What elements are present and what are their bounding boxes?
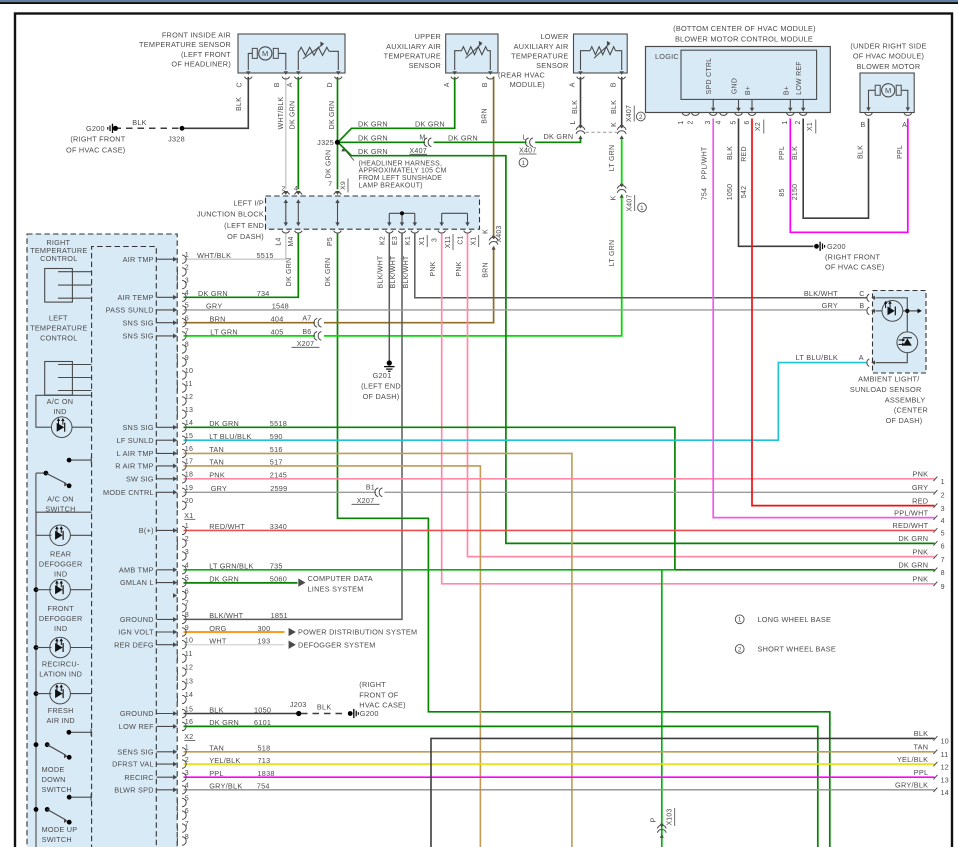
wire DK GRN 5518 X1-14 — [184, 427, 675, 570]
svg-text:15: 15 — [185, 705, 193, 713]
pin X3-8 — [176, 838, 178, 844]
svg-text:5: 5 — [185, 794, 189, 802]
svg-text:2: 2 — [639, 114, 643, 121]
svg-text:LOW REF: LOW REF — [119, 722, 154, 731]
svg-text:300: 300 — [258, 624, 271, 633]
svg-text:DEFOGGER: DEFOGGER — [39, 560, 83, 569]
svg-text:518: 518 — [258, 744, 271, 753]
svg-text:SUNLOAD SENSOR: SUNLOAD SENSOR — [850, 385, 922, 394]
svg-text:(LEFT END: (LEFT END — [361, 382, 401, 391]
svg-text:GROUND: GROUND — [120, 709, 154, 718]
svg-text:A: A — [287, 82, 294, 87]
wire BLK 1050 module GND to G200 — [739, 119, 814, 247]
svg-text:IND: IND — [54, 570, 67, 579]
svg-text:LT GRN: LT GRN — [609, 145, 616, 172]
svg-text:GRY: GRY — [822, 301, 838, 310]
svg-text:5518: 5518 — [270, 419, 287, 428]
svg-text:1838: 1838 — [258, 769, 275, 778]
svg-text:12: 12 — [185, 664, 193, 672]
svg-text:14: 14 — [941, 789, 949, 797]
svg-text:8: 8 — [185, 341, 189, 349]
svg-text:16: 16 — [185, 718, 193, 726]
wire DK GRN upper sensor A to J325 — [339, 77, 455, 141]
svg-text:G200: G200 — [360, 709, 379, 718]
thermistor R upper aux sensor — [462, 47, 488, 55]
svg-text:WHT/BLK: WHT/BLK — [278, 96, 285, 129]
svg-text:1: 1 — [185, 744, 189, 752]
pin X1-9 — [176, 359, 178, 365]
svg-text:SHORT WHEEL BASE: SHORT WHEEL BASE — [758, 645, 836, 654]
svg-text:C: C — [237, 82, 244, 87]
upper auxiliary air temperature sensor box — [446, 34, 498, 73]
svg-text:DK GRN: DK GRN — [329, 101, 336, 130]
svg-text:5060: 5060 — [270, 574, 287, 583]
circled 1 marker X407 — [638, 203, 647, 212]
pin X3-7 — [176, 825, 178, 831]
svg-text:4: 4 — [716, 120, 723, 124]
svg-text:RECIRC: RECIRC — [124, 773, 153, 782]
wire BRN 404 to X1-6 — [184, 322, 316, 324]
connector X407 2 cavity L — [576, 127, 585, 130]
circled 1 long wheel base marker — [519, 158, 528, 167]
sensor pin cavities — [246, 71, 250, 75]
blower motor M — [875, 85, 901, 95]
svg-text:PNK: PNK — [913, 547, 929, 556]
wire PPL 1838 X3-3 to right row 13 — [184, 776, 935, 778]
svg-text:BLK: BLK — [572, 100, 579, 114]
wire PNK X11-C1 to right row 7 — [468, 233, 935, 556]
svg-text:LT GRN: LT GRN — [609, 240, 616, 267]
wire BLK 1050 X2-15 to J203 — [184, 713, 299, 715]
svg-text:PNK: PNK — [913, 470, 929, 479]
svg-text:DEFOGGER: DEFOGGER — [39, 614, 83, 623]
pin X1-12 — [176, 398, 178, 404]
svg-text:516: 516 — [270, 445, 283, 454]
svg-text:SNS SIG: SNS SIG — [122, 423, 153, 432]
pin X2-12 — [176, 669, 178, 675]
mode up switch contact stub — [67, 795, 72, 800]
svg-text:REAR: REAR — [50, 550, 71, 559]
pin X2-14 — [176, 696, 178, 702]
ambient pin cavities C B A — [867, 294, 869, 302]
svg-text:TEMPERATURE: TEMPERATURE — [384, 51, 441, 60]
connector X407 1 cavity K on LT GRN — [617, 185, 626, 188]
power distribution system arrow — [289, 628, 296, 636]
svg-text:1: 1 — [185, 251, 189, 259]
svg-text:5: 5 — [185, 574, 189, 582]
svg-text:85: 85 — [779, 188, 786, 196]
svg-text:DK GRN: DK GRN — [415, 119, 445, 128]
svg-text:OF HEADLINER): OF HEADLINER) — [171, 59, 231, 68]
svg-text:3: 3 — [941, 505, 945, 513]
svg-text:404: 404 — [271, 315, 284, 324]
svg-text:X403: X403 — [496, 225, 503, 242]
svg-text:OF HVAC MODULE): OF HVAC MODULE) — [853, 52, 924, 61]
svg-text:2: 2 — [185, 264, 189, 272]
svg-text:D: D — [327, 82, 334, 87]
svg-text:OF HVAC CASE): OF HVAC CASE) — [825, 263, 884, 272]
svg-text:(RIGHT FRONT: (RIGHT FRONT — [70, 134, 125, 143]
svg-text:B: B — [859, 302, 864, 310]
svg-text:10: 10 — [185, 637, 193, 645]
svg-text:GRY: GRY — [912, 483, 928, 492]
svg-text:DK GRN: DK GRN — [198, 289, 228, 298]
svg-text:2: 2 — [185, 535, 189, 543]
svg-text:GROUND: GROUND — [120, 615, 154, 624]
svg-text:10: 10 — [941, 738, 949, 746]
svg-text:SENSOR: SENSOR — [409, 61, 441, 70]
svg-text:TAN: TAN — [913, 743, 928, 752]
svg-text:X2: X2 — [184, 733, 193, 741]
svg-text:BRN: BRN — [482, 108, 489, 124]
svg-text:BLK: BLK — [792, 146, 799, 160]
svg-text:C: C — [859, 290, 864, 298]
svg-text:8: 8 — [941, 569, 945, 577]
svg-text:1851: 1851 — [271, 611, 288, 620]
svg-text:590: 590 — [270, 432, 283, 441]
svg-text:MODE CNTRL: MODE CNTRL — [103, 488, 154, 497]
svg-text:M: M — [262, 49, 269, 58]
wire GRY/BLK 754 X3-4 to right row 14 — [184, 789, 935, 791]
svg-text:MODE UP: MODE UP — [42, 825, 78, 834]
svg-text:BLOWER MOTOR CONTROL MODULE: BLOWER MOTOR CONTROL MODULE — [675, 34, 813, 43]
svg-text:M4: M4 — [288, 236, 295, 246]
svg-text:SWITCH: SWITCH — [45, 504, 75, 513]
svg-text:A/C ON: A/C ON — [47, 397, 74, 406]
svg-text:B: B — [611, 82, 618, 87]
svg-text:12: 12 — [185, 393, 193, 401]
svg-text:A: A — [902, 121, 907, 129]
svg-text:(UNDER RIGHT SIDE: (UNDER RIGHT SIDE — [850, 41, 926, 50]
wire BRN 404 upper sensor B — [324, 77, 494, 323]
svg-text:1: 1 — [522, 160, 526, 167]
svg-text:2599: 2599 — [270, 484, 287, 493]
node J325 — [335, 140, 340, 145]
svg-text:M: M — [885, 86, 892, 95]
svg-text:1548: 1548 — [272, 302, 289, 311]
svg-text:FRESH: FRESH — [48, 706, 74, 715]
connector X407 break L — [525, 138, 528, 147]
svg-text:9: 9 — [941, 583, 945, 591]
svg-text:ASSEMBLY: ASSEMBLY — [885, 395, 926, 404]
svg-text:M: M — [419, 134, 425, 142]
svg-text:BLK/WHT: BLK/WHT — [390, 255, 397, 288]
pin X2-2 — [176, 540, 178, 546]
svg-text:B: B — [274, 82, 281, 87]
svg-text:R AIR TMP: R AIR TMP — [115, 462, 154, 471]
J325 callout arrow — [345, 150, 355, 161]
svg-text:A7: A7 — [302, 315, 311, 323]
svg-text:B+: B+ — [745, 86, 752, 95]
svg-text:K: K — [611, 122, 618, 127]
svg-text:2: 2 — [687, 120, 694, 124]
svg-text:(CENTER: (CENTER — [894, 406, 928, 415]
wire DK GRN 734 P5 run — [338, 233, 830, 847]
svg-text:2145: 2145 — [270, 471, 287, 480]
svg-text:13: 13 — [941, 776, 949, 784]
svg-text:CONTROL: CONTROL — [40, 333, 77, 342]
svg-text:PPL/WHT: PPL/WHT — [894, 508, 928, 517]
svg-text:G200: G200 — [86, 124, 105, 133]
svg-text:APPROXIMATELY 105 CM: APPROXIMATELY 105 CM — [359, 168, 447, 175]
svg-text:PPL: PPL — [209, 769, 224, 778]
svg-text:(LEFT END: (LEFT END — [224, 221, 264, 230]
svg-text:DK GRN: DK GRN — [898, 534, 928, 543]
svg-text:BLK: BLK — [914, 729, 929, 738]
svg-text:LT GRN/BLK: LT GRN/BLK — [209, 562, 253, 571]
svg-text:DK GRN: DK GRN — [209, 419, 239, 428]
front defogger indicator LED — [34, 587, 39, 592]
svg-text:X407: X407 — [409, 147, 427, 155]
blower motor control module box — [646, 47, 831, 113]
A/C on switch contact stub — [67, 458, 72, 463]
svg-text:TAN: TAN — [209, 458, 224, 467]
svg-text:G201: G201 — [373, 371, 392, 380]
svg-text:12: 12 — [941, 763, 949, 771]
svg-text:517: 517 — [270, 458, 283, 467]
svg-text:B: B — [482, 82, 489, 87]
svg-text:4: 4 — [185, 782, 189, 790]
svg-text:L: L — [523, 134, 527, 142]
fresh air indicator LED — [34, 691, 39, 696]
wire DK GRN J325 to right row 6 — [339, 143, 935, 543]
ground G200 bottom — [348, 711, 353, 716]
svg-text:7: 7 — [941, 556, 945, 564]
svg-text:OF HVAC CASE): OF HVAC CASE) — [66, 145, 125, 154]
svg-text:K: K — [483, 229, 490, 234]
svg-text:LEFT I/P: LEFT I/P — [233, 198, 264, 207]
svg-text:BLK: BLK — [611, 100, 618, 114]
svg-text:FRONT: FRONT — [48, 604, 75, 613]
svg-text:YEL/BLK: YEL/BLK — [897, 755, 928, 764]
svg-text:6101: 6101 — [254, 718, 271, 727]
svg-text:B1: B1 — [366, 484, 375, 492]
svg-text:BLK: BLK — [858, 145, 865, 159]
motor M front inside air temp sensor — [252, 48, 278, 58]
svg-text:E3: E3 — [392, 236, 399, 245]
svg-text:X1: X1 — [184, 512, 193, 520]
svg-text:A: A — [569, 82, 576, 87]
svg-text:WHT: WHT — [209, 637, 227, 646]
junction block top cavities — [282, 192, 290, 194]
svg-text:COMPUTER DATA: COMPUTER DATA — [308, 574, 373, 583]
svg-text:BLOWER MOTOR: BLOWER MOTOR — [857, 62, 921, 71]
wire PNK X1-3 to right row 9 — [442, 233, 935, 583]
svg-text:DK GRN: DK GRN — [209, 718, 239, 727]
svg-text:LT BLU/BLK: LT BLU/BLK — [209, 432, 251, 441]
svg-text:DK GRN: DK GRN — [286, 258, 293, 287]
svg-text:RED/WHT: RED/WHT — [892, 521, 928, 530]
svg-text:FROM LEFT SUNSHADE: FROM LEFT SUNSHADE — [359, 175, 443, 182]
svg-text:DK GRN: DK GRN — [326, 150, 333, 179]
wire TAN 516 X1-16 — [184, 453, 572, 847]
svg-text:1050: 1050 — [727, 184, 734, 201]
blower motor box — [860, 73, 914, 113]
svg-text:B: B — [861, 121, 866, 129]
svg-text:754: 754 — [701, 188, 708, 200]
svg-text:P: P — [650, 817, 657, 822]
defogger system arrow — [289, 641, 296, 649]
svg-text:19: 19 — [185, 484, 193, 492]
svg-text:3: 3 — [185, 276, 189, 284]
svg-text:5: 5 — [731, 120, 738, 124]
svg-text:11: 11 — [185, 650, 193, 658]
svg-text:LF SUNLD: LF SUNLD — [117, 436, 154, 445]
svg-text:20: 20 — [185, 497, 193, 505]
svg-text:17: 17 — [185, 458, 193, 466]
svg-text:10: 10 — [185, 367, 193, 375]
svg-text:11: 11 — [941, 751, 949, 759]
svg-text:LEFT: LEFT — [49, 313, 68, 322]
svg-text:11: 11 — [185, 380, 193, 388]
svg-text:WHT/BLK: WHT/BLK — [197, 251, 231, 260]
connector X403 K on BRN — [489, 237, 498, 240]
svg-text:DK GRN: DK GRN — [325, 258, 332, 287]
svg-text:3340: 3340 — [270, 522, 287, 531]
wire BLK lower sensor B — [621, 77, 623, 128]
wire RED 542 to right row 3 — [752, 119, 935, 506]
svg-text:3: 3 — [432, 238, 439, 242]
wire PPL/WHT 754 to right row 4 — [713, 119, 934, 518]
svg-text:SNS SIG: SNS SIG — [122, 332, 153, 341]
junction block bottom cavities — [282, 231, 290, 233]
svg-text:(BOTTOM CENTER OF HVAC MODULE): (BOTTOM CENTER OF HVAC MODULE) — [673, 24, 816, 33]
svg-text:RED: RED — [741, 146, 748, 162]
svg-text:7: 7 — [328, 181, 332, 188]
splice J203 — [296, 711, 301, 716]
wire RED/WHT 3340 X2-1 to right row 5 — [184, 529, 935, 531]
svg-text:TEMPERATURE SENSOR: TEMPERATURE SENSOR — [139, 40, 231, 49]
svg-text:PPL: PPL — [914, 768, 929, 777]
svg-text:X103: X103 — [667, 808, 674, 825]
wire BLK/WHT K1 to ambient C — [415, 233, 867, 297]
svg-text:(RIGHT: (RIGHT — [359, 680, 386, 689]
svg-text:3: 3 — [185, 769, 189, 777]
svg-text:DFRST VAL: DFRST VAL — [112, 760, 154, 769]
wire X407 connector link dashed — [586, 131, 618, 133]
ground G200 module — [814, 244, 819, 249]
mode down switch S2 — [34, 742, 39, 747]
svg-text:DK GRN: DK GRN — [358, 119, 388, 128]
svg-text:PNK: PNK — [456, 261, 463, 276]
pin X1-2 — [176, 269, 178, 275]
svg-text:SW SIG: SW SIG — [126, 474, 154, 483]
wire DK GRN 6101 X2-16 — [184, 726, 818, 847]
svg-text:PPL/WHT: PPL/WHT — [701, 146, 708, 179]
svg-text:6: 6 — [185, 807, 189, 815]
photodiode D1 ambient light — [882, 301, 903, 322]
svg-text:X1: X1 — [471, 237, 478, 246]
svg-text:YEL/BLK: YEL/BLK — [209, 756, 240, 765]
svg-text:PNK: PNK — [913, 575, 929, 584]
svg-text:SENS SIG: SENS SIG — [117, 747, 154, 756]
svg-text:BLK: BLK — [727, 146, 734, 160]
svg-text:HVAC CASE): HVAC CASE) — [359, 700, 406, 709]
wire DK GRN sensor pin A — [297, 77, 299, 190]
svg-text:DK GRN: DK GRN — [898, 561, 928, 570]
svg-text:G200: G200 — [827, 242, 846, 251]
lower auxiliary air temperature sensor box — [574, 34, 628, 73]
pin X3-6 — [176, 812, 178, 818]
svg-text:GND: GND — [732, 78, 739, 94]
svg-text:B(+): B(+) — [139, 526, 154, 535]
svg-text:13: 13 — [185, 406, 193, 414]
svg-text:DK GRN: DK GRN — [358, 133, 388, 142]
junction block ground bus — [389, 213, 415, 225]
svg-text:6: 6 — [941, 543, 945, 551]
wire BLK sensor pin C to J328 — [181, 77, 248, 129]
indicator LED bus — [35, 512, 37, 847]
pin X2-6 — [173, 593, 177, 598]
svg-text:FRONT INSIDE AIR: FRONT INSIDE AIR — [162, 31, 231, 40]
right temperature control R potentiometer — [45, 269, 73, 303]
svg-text:MODE: MODE — [42, 765, 65, 774]
svg-text:BLWR SPD: BLWR SPD — [114, 785, 154, 794]
junction block pnk bus — [442, 213, 468, 225]
svg-text:J328: J328 — [168, 134, 185, 143]
connector X207 break B1 on GRY — [375, 488, 378, 497]
svg-text:8: 8 — [185, 833, 189, 841]
svg-text:5: 5 — [941, 530, 945, 538]
svg-text:2: 2 — [281, 186, 285, 193]
svg-text:4: 4 — [185, 562, 189, 570]
svg-text:TAN: TAN — [209, 445, 224, 454]
connector X207 break A7 on BRN — [314, 318, 317, 327]
wire GRY 1548 X1-5 to ambient B — [184, 309, 867, 311]
module pin lines with arrows — [712, 99, 714, 110]
wire LT BLU/BLK 590 X1-15 to ambient A — [184, 363, 867, 441]
pin X1-8 — [176, 346, 178, 352]
svg-text:(RIGHT FRONT: (RIGHT FRONT — [825, 252, 880, 261]
svg-text:RECIRCU-: RECIRCU- — [42, 660, 80, 669]
wire LT GRN 405 — [324, 137, 622, 336]
thermistor R front sensor — [299, 47, 329, 55]
left I/P junction block — [266, 196, 480, 229]
svg-text:AMB TMP: AMB TMP — [119, 565, 154, 574]
svg-text:9: 9 — [185, 624, 189, 632]
svg-text:TEMPERATURE: TEMPERATURE — [30, 323, 87, 332]
wire TAN 518 X3-1 to right row 11 — [184, 751, 935, 753]
wire WHT/BLK 5515 X1-1 to L4 — [184, 233, 286, 259]
svg-text:TEMPERATURE: TEMPERATURE — [511, 51, 568, 60]
photodiode D2 sunload — [897, 332, 918, 353]
svg-text:4: 4 — [941, 517, 945, 525]
pin X2-11 — [176, 655, 178, 661]
connector X407 2 cavity K — [617, 127, 626, 130]
svg-text:(REAR HVAC: (REAR HVAC — [498, 71, 545, 80]
pin X1-20 — [176, 502, 178, 508]
svg-text:1: 1 — [782, 120, 789, 124]
svg-text:TAN: TAN — [209, 744, 224, 753]
svg-text:(LEFT FRONT: (LEFT FRONT — [181, 50, 231, 59]
svg-text:A: A — [444, 82, 451, 87]
svg-text:1: 1 — [185, 522, 189, 530]
svg-text:2: 2 — [941, 492, 945, 500]
svg-text:LOWER: LOWER — [540, 32, 568, 41]
svg-text:1: 1 — [738, 617, 742, 624]
svg-text:AIR TMP: AIR TMP — [123, 255, 154, 264]
svg-text:X1: X1 — [807, 122, 814, 131]
svg-text:DK GRN: DK GRN — [544, 132, 574, 141]
svg-text:4: 4 — [294, 186, 298, 193]
svg-text:3: 3 — [185, 548, 189, 556]
svg-text:1: 1 — [941, 478, 945, 486]
legend short wheel base — [735, 645, 744, 654]
wire DK GRN right row 8 — [675, 569, 935, 571]
svg-text:9: 9 — [185, 354, 189, 362]
wire BLK right row 10 — [431, 738, 935, 847]
svg-text:BLK: BLK — [132, 118, 147, 127]
